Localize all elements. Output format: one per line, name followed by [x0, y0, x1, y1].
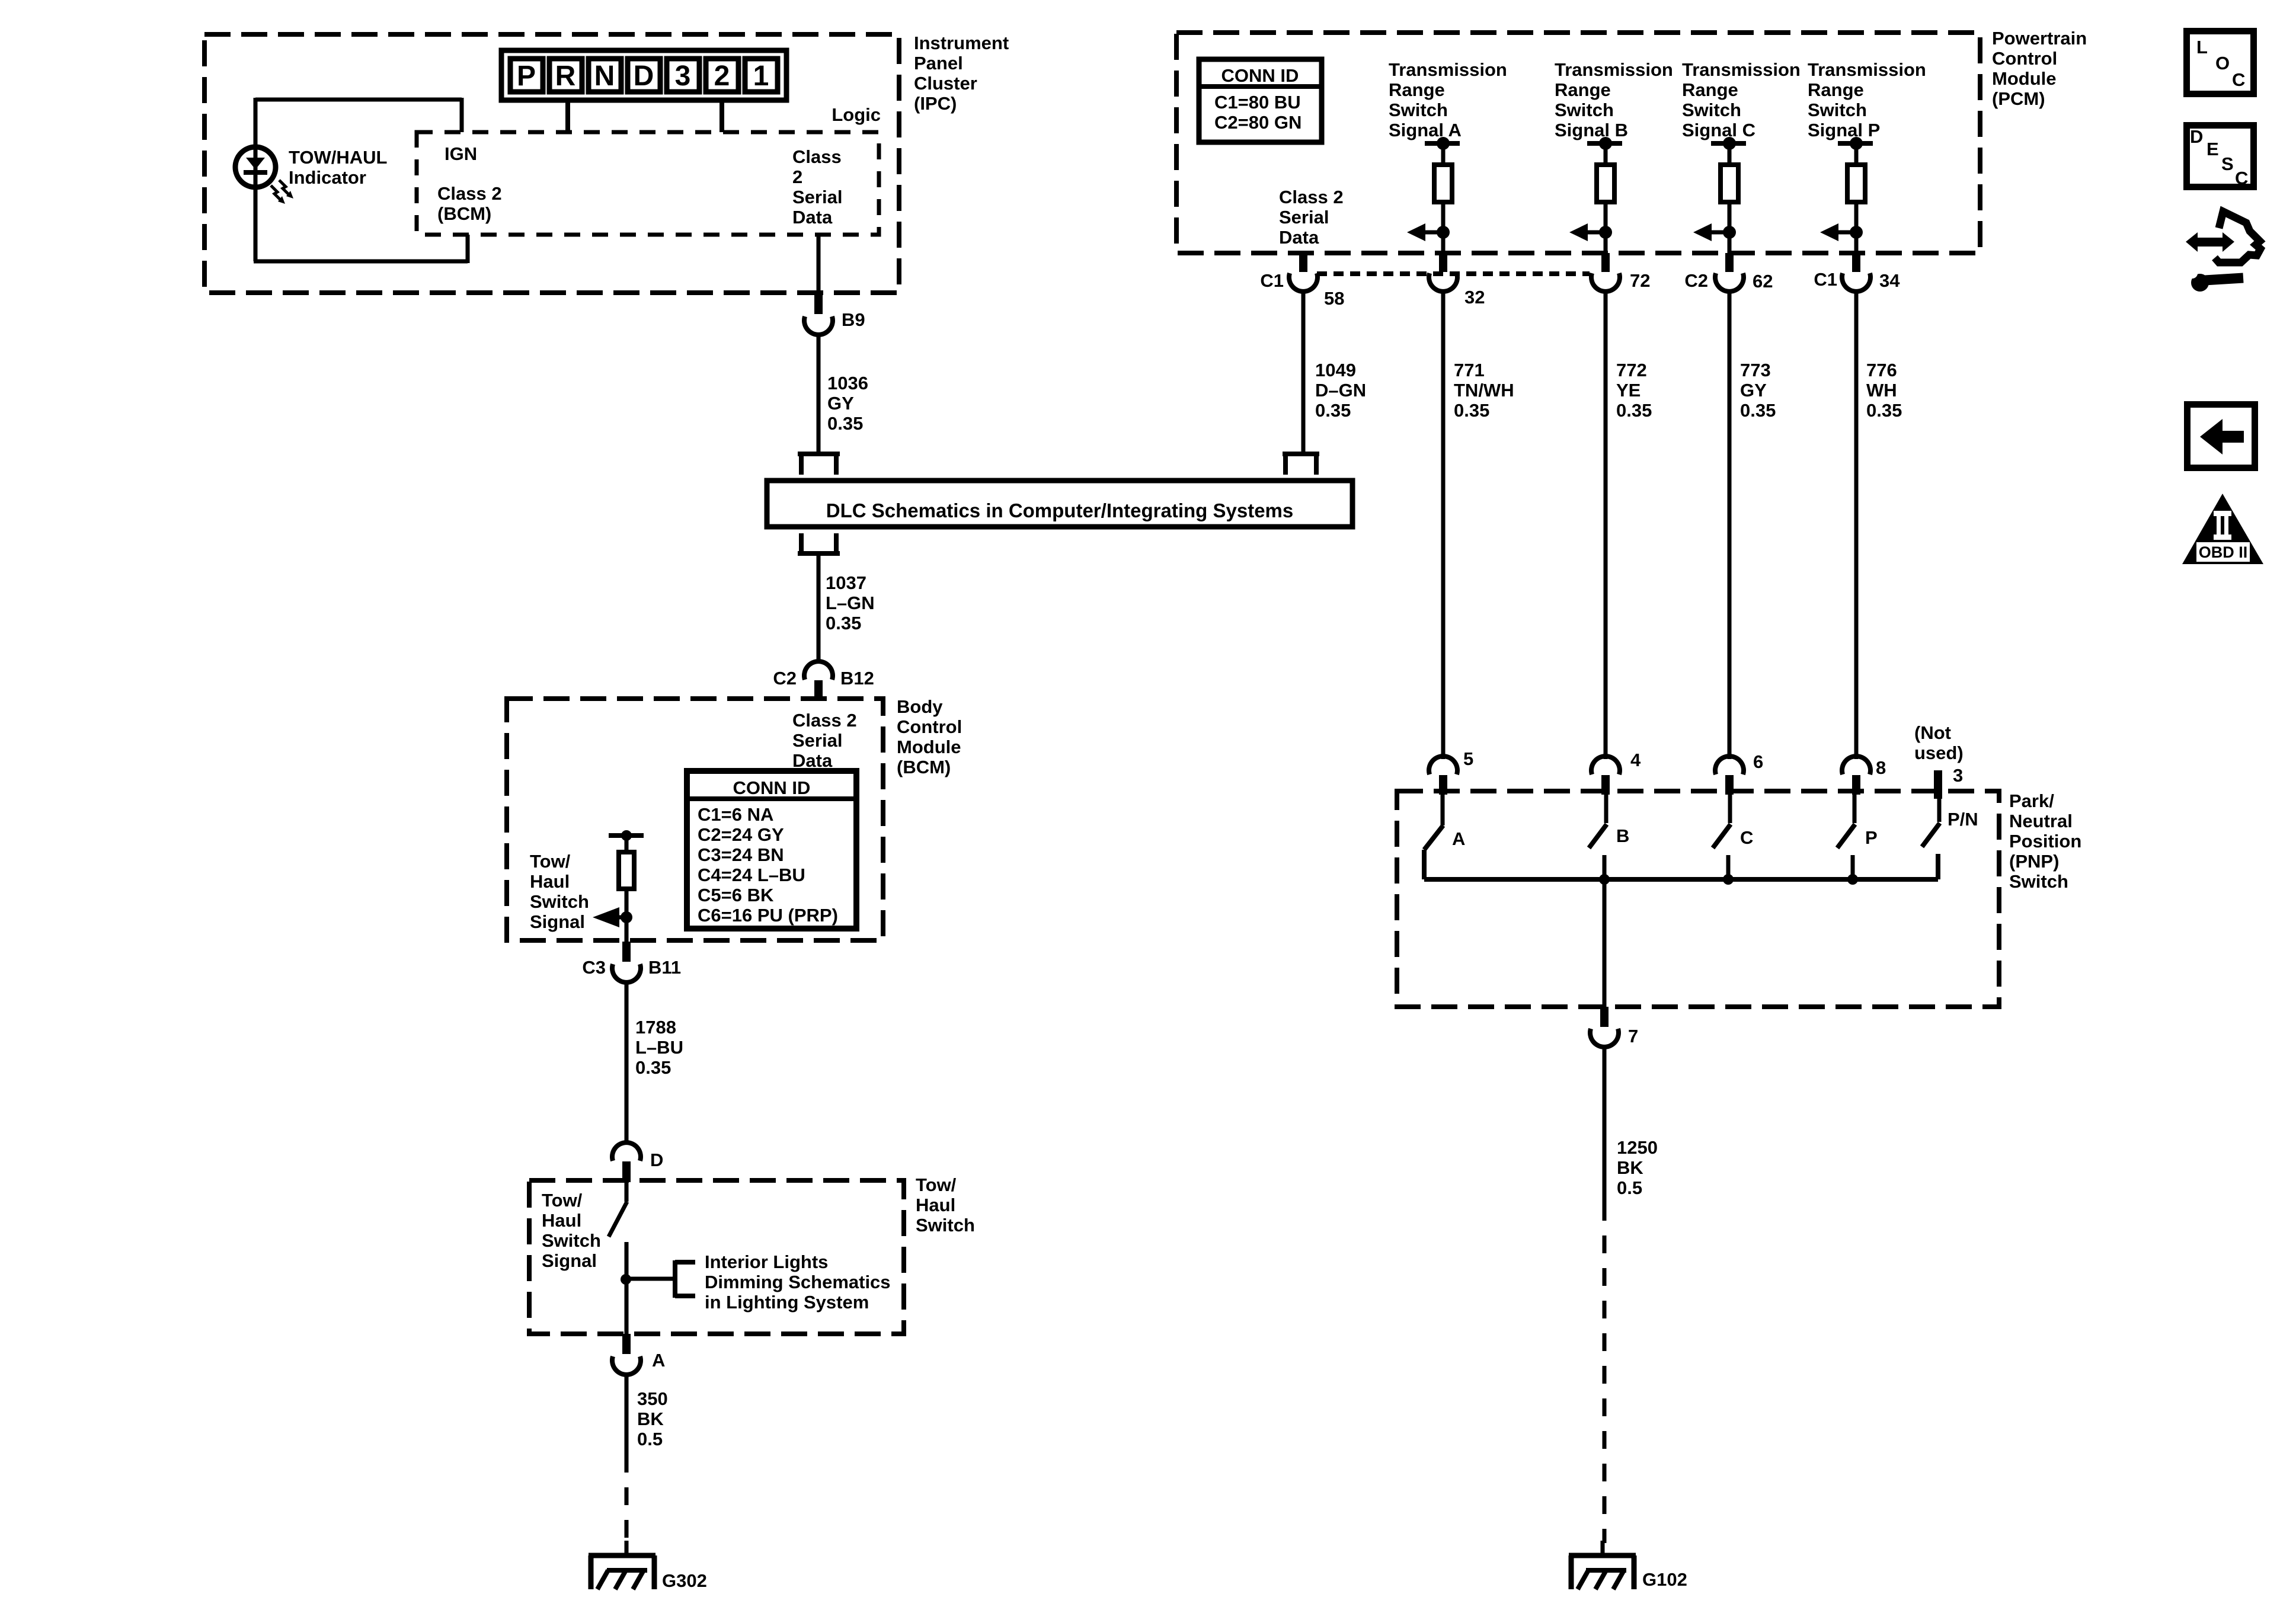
svg-text:Data: Data	[792, 207, 833, 228]
svg-text:0.5: 0.5	[1617, 1177, 1642, 1198]
svg-text:3: 3	[675, 60, 691, 92]
svg-text:0.35: 0.35	[1616, 400, 1652, 421]
svg-text:771: 771	[1454, 360, 1485, 380]
svg-text:1049: 1049	[1315, 360, 1356, 380]
svg-text:Range: Range	[1808, 79, 1864, 100]
svg-text:Transmission: Transmission	[1555, 59, 1673, 80]
svg-text:2: 2	[714, 60, 730, 92]
svg-text:(Not: (Not	[1914, 722, 1951, 743]
svg-text:Haul: Haul	[542, 1210, 581, 1231]
svg-text:62: 62	[1753, 271, 1773, 292]
svg-text:Switch: Switch	[1389, 100, 1448, 120]
svg-text:GY: GY	[827, 393, 854, 414]
svg-text:0.35: 0.35	[635, 1057, 671, 1078]
svg-text:C: C	[2232, 69, 2245, 90]
svg-text:34: 34	[1879, 270, 1900, 291]
svg-text:Position: Position	[2009, 831, 2081, 852]
svg-text:C2: C2	[1684, 270, 1708, 291]
svg-text:IGN: IGN	[445, 143, 477, 164]
svg-text:(IPC): (IPC)	[914, 93, 957, 114]
svg-text:Switch: Switch	[916, 1215, 975, 1235]
svg-text:R: R	[555, 60, 576, 92]
svg-text:Switch: Switch	[530, 891, 589, 912]
svg-text:Class 2: Class 2	[437, 183, 502, 204]
svg-text:OBD II: OBD II	[2199, 543, 2248, 561]
svg-text:Tow/: Tow/	[916, 1174, 957, 1195]
svg-text:Switch: Switch	[542, 1230, 601, 1251]
svg-text:C: C	[2235, 168, 2248, 188]
svg-text:Class: Class	[792, 146, 842, 167]
svg-text:Interior Lights: Interior Lights	[705, 1251, 828, 1272]
svg-text:B11: B11	[648, 957, 681, 978]
svg-text:D–GN: D–GN	[1315, 380, 1366, 401]
svg-text:Module: Module	[1992, 68, 2057, 89]
svg-text:0.35: 0.35	[1866, 400, 1902, 421]
svg-text:D: D	[2190, 126, 2203, 147]
svg-text:L–GN: L–GN	[826, 593, 875, 613]
svg-text:Instrument: Instrument	[914, 33, 1009, 53]
svg-text:Tow/: Tow/	[530, 851, 571, 872]
svg-text:1036: 1036	[827, 373, 868, 393]
svg-text:CONN ID: CONN ID	[733, 777, 811, 798]
svg-text:C1: C1	[1260, 270, 1284, 291]
svg-text:350: 350	[637, 1388, 668, 1409]
svg-text:Class 2: Class 2	[1279, 187, 1344, 207]
svg-text:C5=6 BK: C5=6 BK	[698, 885, 774, 905]
svg-text:Logic: Logic	[832, 104, 881, 125]
svg-text:C2: C2	[773, 668, 797, 689]
svg-text:in Lighting System: in Lighting System	[705, 1292, 869, 1313]
svg-text:B9: B9	[842, 309, 865, 330]
svg-text:Control: Control	[897, 716, 962, 737]
svg-text:E: E	[2207, 139, 2219, 159]
svg-text:772: 772	[1616, 360, 1647, 380]
svg-text:G102: G102	[1642, 1569, 1687, 1590]
svg-text:Haul: Haul	[916, 1195, 955, 1215]
svg-text:C6=16 PU (PRP): C6=16 PU (PRP)	[698, 905, 838, 926]
svg-text:(PNP): (PNP)	[2009, 851, 2059, 872]
svg-text:CONN ID: CONN ID	[1221, 65, 1299, 86]
svg-text:Switch: Switch	[1682, 100, 1741, 120]
svg-text:N: N	[594, 60, 615, 92]
svg-text:C: C	[1740, 827, 1753, 848]
svg-text:TOW/HAUL: TOW/HAUL	[289, 147, 387, 168]
svg-text:1: 1	[753, 60, 769, 92]
svg-text:(BCM): (BCM)	[897, 757, 951, 777]
svg-text:C3: C3	[582, 957, 606, 978]
svg-text:P/N: P/N	[1948, 809, 1978, 830]
svg-text:Serial: Serial	[792, 730, 842, 751]
svg-text:A: A	[652, 1350, 665, 1371]
svg-text:2: 2	[792, 167, 802, 187]
svg-text:S: S	[2221, 153, 2234, 174]
svg-text:4: 4	[1630, 750, 1641, 770]
svg-text:Switch: Switch	[1808, 100, 1867, 120]
svg-text:Range: Range	[1682, 79, 1738, 100]
svg-text:D: D	[650, 1150, 663, 1170]
svg-text:Class 2: Class 2	[792, 710, 857, 731]
svg-text:Range: Range	[1389, 79, 1445, 100]
svg-text:used): used)	[1914, 742, 1964, 763]
svg-text:1788: 1788	[635, 1017, 676, 1038]
svg-text:C1=80 BU: C1=80 BU	[1214, 92, 1301, 113]
svg-text:L–BU: L–BU	[635, 1037, 683, 1058]
svg-text:Body: Body	[897, 696, 943, 717]
svg-text:Panel: Panel	[914, 53, 963, 73]
svg-text:Signal A: Signal A	[1389, 120, 1462, 140]
svg-text:0.35: 0.35	[826, 613, 861, 633]
svg-text:G302: G302	[662, 1570, 707, 1591]
svg-text:D: D	[634, 60, 654, 92]
svg-text:Switch: Switch	[2009, 871, 2068, 892]
svg-text:GY: GY	[1740, 380, 1767, 401]
svg-text:Tow/: Tow/	[542, 1190, 583, 1211]
svg-text:1037: 1037	[826, 572, 866, 593]
svg-text:0.35: 0.35	[1740, 400, 1776, 421]
svg-text:Signal: Signal	[542, 1250, 597, 1271]
svg-text:Range: Range	[1555, 79, 1611, 100]
svg-text:(PCM): (PCM)	[1992, 88, 2045, 109]
svg-text:Indicator: Indicator	[289, 167, 366, 188]
svg-text:3: 3	[1953, 765, 1963, 786]
svg-text:Signal P: Signal P	[1808, 120, 1880, 140]
svg-text:0.35: 0.35	[1454, 400, 1489, 421]
svg-text:Transmission: Transmission	[1808, 59, 1926, 80]
svg-text:Cluster: Cluster	[914, 73, 977, 94]
svg-text:58: 58	[1324, 288, 1344, 309]
svg-text:(BCM): (BCM)	[437, 203, 491, 224]
svg-text:Data: Data	[1279, 227, 1319, 248]
svg-text:7: 7	[1628, 1026, 1638, 1046]
svg-text:B: B	[1616, 825, 1629, 846]
svg-text:P: P	[1865, 827, 1878, 848]
svg-text:Control: Control	[1992, 48, 2057, 69]
svg-text:8: 8	[1876, 757, 1886, 778]
svg-text:773: 773	[1740, 360, 1771, 380]
svg-text:YE: YE	[1616, 380, 1641, 401]
svg-text:1250: 1250	[1617, 1137, 1658, 1158]
svg-text:Dimming Schematics: Dimming Schematics	[705, 1272, 891, 1292]
svg-text:6: 6	[1753, 751, 1763, 772]
svg-text:32: 32	[1464, 287, 1485, 308]
svg-text:P: P	[517, 60, 536, 92]
svg-text:C2=24 GY: C2=24 GY	[698, 824, 784, 845]
svg-text:C1: C1	[1814, 269, 1837, 290]
svg-text:B12: B12	[840, 668, 874, 689]
svg-text:Neutral: Neutral	[2009, 811, 2073, 831]
svg-text:Powertrain: Powertrain	[1992, 28, 2087, 49]
svg-text:Transmission: Transmission	[1389, 59, 1507, 80]
svg-text:DLC Schematics in Computer/Int: DLC Schematics in Computer/Integrating S…	[826, 500, 1294, 521]
svg-text:O: O	[2215, 53, 2230, 73]
svg-text:Switch: Switch	[1555, 100, 1614, 120]
svg-text:L: L	[2196, 37, 2208, 57]
svg-text:C3=24 BN: C3=24 BN	[698, 844, 784, 865]
svg-text:Signal B: Signal B	[1555, 120, 1628, 140]
svg-text:72: 72	[1630, 270, 1650, 291]
svg-text:WH: WH	[1866, 380, 1897, 401]
svg-text:TN/WH: TN/WH	[1454, 380, 1514, 401]
svg-text:776: 776	[1866, 360, 1897, 380]
svg-text:0.35: 0.35	[827, 413, 863, 434]
svg-text:5: 5	[1463, 748, 1473, 769]
svg-text:Haul: Haul	[530, 871, 570, 892]
svg-text:Park/: Park/	[2009, 790, 2054, 811]
svg-text:Signal C: Signal C	[1682, 120, 1755, 140]
svg-text:BK: BK	[1617, 1157, 1643, 1178]
svg-text:Serial: Serial	[792, 187, 842, 207]
svg-text:Serial: Serial	[1279, 207, 1329, 228]
svg-text:Signal: Signal	[530, 911, 585, 932]
svg-text:BK: BK	[637, 1409, 664, 1429]
svg-text:C1=6 NA: C1=6 NA	[698, 804, 773, 825]
svg-text:Data: Data	[792, 750, 833, 771]
svg-text:Transmission: Transmission	[1682, 59, 1801, 80]
svg-text:Module: Module	[897, 737, 961, 757]
svg-text:0.5: 0.5	[637, 1429, 663, 1449]
svg-text:0.35: 0.35	[1315, 400, 1351, 421]
svg-text:A: A	[1452, 828, 1465, 849]
svg-text:C4=24 L–BU: C4=24 L–BU	[698, 865, 805, 885]
svg-text:C2=80 GN: C2=80 GN	[1214, 112, 1302, 133]
